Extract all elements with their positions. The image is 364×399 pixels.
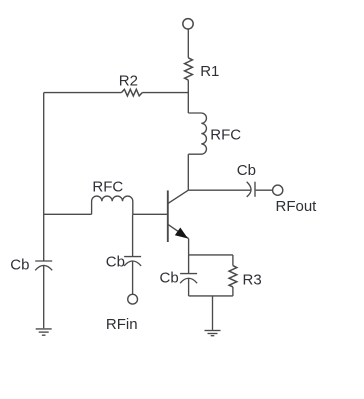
svg-text:R3: R3 xyxy=(243,272,262,289)
svg-text:RFC: RFC xyxy=(92,179,123,196)
svg-text:Cb: Cb xyxy=(160,269,179,286)
svg-text:Cb: Cb xyxy=(106,253,125,270)
svg-text:RFC: RFC xyxy=(210,126,241,143)
svg-text:Cb: Cb xyxy=(237,162,256,179)
svg-text:R2: R2 xyxy=(119,73,138,90)
svg-text:RFin: RFin xyxy=(106,316,138,333)
svg-text:RFout: RFout xyxy=(276,198,318,215)
svg-text:Cb: Cb xyxy=(10,256,29,273)
svg-text:R1: R1 xyxy=(200,63,219,80)
